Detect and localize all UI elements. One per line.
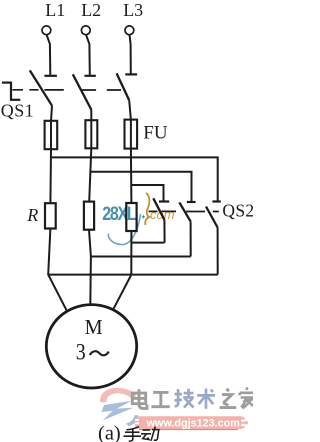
tilde symbol xyxy=(90,351,109,355)
logo blue bolt xyxy=(101,401,133,421)
caption char 动 xyxy=(141,427,159,441)
svg-text:L1: L1 xyxy=(45,0,65,20)
svg-text:28XL: 28XL xyxy=(102,203,136,225)
svg-text:QS2: QS2 xyxy=(222,201,253,221)
banner body xyxy=(135,416,247,429)
resistor R1 xyxy=(45,203,56,228)
watermark title char 术 xyxy=(197,389,215,409)
wire blade2 to fuse FU2 xyxy=(90,110,92,149)
resistor R2 xyxy=(84,202,94,230)
orange watermark brace xyxy=(145,193,149,225)
wire fuse3 to resistor R3 xyxy=(130,149,133,203)
QS1 pole 3 fixed contact tick xyxy=(125,73,137,75)
QS2 pole C fixed contact tick xyxy=(212,200,220,202)
wire QS2 pole C down xyxy=(217,228,219,275)
return wire pole C to phase1 xyxy=(48,274,218,276)
watermark title char 技 xyxy=(174,389,193,408)
wire L1 to QS1 pole 1 xyxy=(47,35,51,75)
fuse FU2 xyxy=(85,120,97,148)
return wire pole A to phase3 xyxy=(131,242,164,244)
banner left white bars xyxy=(135,419,139,421)
terminal L3 xyxy=(125,26,134,35)
wire R3 to motor xyxy=(113,231,132,310)
QS1 linkage dashed line xyxy=(12,89,121,91)
terminal L1 xyxy=(42,26,51,35)
wire fuse2 to resistor R2 xyxy=(89,148,91,201)
QS2 pole A fixed contact tick xyxy=(159,200,169,202)
wire fuse1 to resistor R1 xyxy=(49,149,52,203)
QS1 pole 1 fixed contact tick xyxy=(44,75,57,77)
QS2 pole C blade xyxy=(206,207,218,228)
logo pink arc xyxy=(100,388,137,402)
blue watermark swoosh xyxy=(108,214,140,245)
QS1 pole 2 fixed contact tick xyxy=(85,75,96,77)
caption char 手 xyxy=(124,427,142,442)
wire R1 to motor xyxy=(48,229,66,311)
QS1 pole 2 blade xyxy=(73,74,92,109)
svg-text:R: R xyxy=(26,205,38,225)
branch wire phase1 to QS2 pole C xyxy=(51,157,218,200)
QS1 pole 1 blade xyxy=(30,70,52,105)
watermark title char 家 xyxy=(240,387,255,408)
motor M circle xyxy=(46,305,136,388)
QS2 linkage dashed line xyxy=(149,210,219,212)
wire QS2 pole B down xyxy=(190,222,192,257)
QS1 pole 3 blade xyxy=(117,73,130,100)
banner bottom accent xyxy=(139,429,238,431)
wire blade1 to fuse FU1 xyxy=(51,106,52,150)
resistor R3 xyxy=(126,203,136,231)
fuse FU3 xyxy=(125,120,138,149)
fuse FU1 xyxy=(45,121,58,149)
blue watermark plus mark xyxy=(142,215,145,218)
svg-text:L3: L3 xyxy=(123,0,143,20)
QS2 pole A blade xyxy=(153,198,164,220)
svg-text:QS1: QS1 xyxy=(1,100,34,120)
watermark title char 电 xyxy=(132,389,147,408)
watermark title char 之 xyxy=(220,389,237,408)
QS1 operating handle xyxy=(2,82,20,101)
QS2 pole B blade xyxy=(179,202,190,221)
svg-text:3: 3 xyxy=(76,339,86,364)
wire L3 to QS1 pole 3 xyxy=(130,35,131,74)
QS2 pole B fixed contact tick xyxy=(187,201,196,203)
wire blade3 to fuse FU3 xyxy=(129,100,131,149)
svg-text:L2: L2 xyxy=(81,0,101,20)
svg-text:(a): (a) xyxy=(98,422,121,442)
wire QS2 pole A down xyxy=(163,220,165,243)
banner right comb notches xyxy=(241,420,247,422)
watermark title char 工 xyxy=(151,392,169,406)
branch wire phase3 to QS2 pole A xyxy=(131,185,163,201)
svg-text:FU: FU xyxy=(143,123,168,144)
branch wire phase2 to QS2 pole B xyxy=(91,172,192,201)
svg-text:M: M xyxy=(85,315,103,339)
svg-text:www.dgjs123.com: www.dgjs123.com xyxy=(146,417,240,429)
wire L2 to QS1 pole 2 xyxy=(86,35,90,75)
terminal L2 xyxy=(81,26,90,35)
wire R2 to motor xyxy=(89,230,91,305)
logo blue arc xyxy=(126,415,139,426)
return wire pole B to phase2 xyxy=(91,256,191,258)
